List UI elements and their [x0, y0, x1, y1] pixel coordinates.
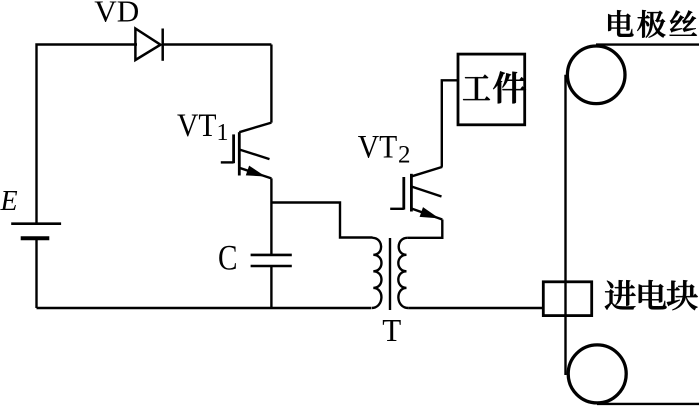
svg-text:1: 1: [217, 120, 229, 146]
electrode wire vertical: [564, 75, 566, 375]
transistor VT2: [390, 167, 442, 220]
diode VD: [135, 29, 162, 61]
wire top-left: [37, 45, 138, 224]
transformer T primary winding: [372, 238, 382, 308]
svg-text:E: E: [0, 186, 18, 217]
svg-text:VT: VT: [177, 108, 217, 144]
battery E: [11, 224, 61, 239]
wire bottom (primary side): [37, 307, 372, 309]
workpiece box: [458, 54, 525, 125]
power feed block: [543, 282, 591, 316]
label workpiece 工件: [463, 71, 526, 103]
svg-text:2: 2: [398, 142, 411, 169]
transistor VT1: [221, 45, 272, 179]
guide pulley bottom: [568, 345, 626, 403]
transformer T secondary winding: [398, 238, 408, 308]
wire top-right: [163, 43, 272, 45]
wire secondary-to-block: [408, 307, 543, 309]
guide pulley top: [567, 46, 625, 104]
transformer T core: [389, 238, 391, 310]
wire cap-to-bottom: [270, 266, 272, 308]
wire workpiece-to-VT2: [442, 80, 458, 167]
wire battery-to-bottom: [35, 238, 37, 308]
label 进电块: [605, 280, 698, 310]
capacitor C: [251, 255, 292, 266]
wire VT1-emitter down: [270, 178, 272, 254]
svg-text:VD: VD: [94, 0, 139, 28]
electrode wire bottom: [597, 403, 699, 405]
svg-text:T: T: [382, 313, 401, 348]
electrode wire top: [596, 43, 699, 45]
label 电极丝: [608, 10, 697, 38]
svg-text:VT: VT: [358, 130, 398, 166]
wire to transformer primary: [271, 203, 372, 238]
wire VT2-emitter to secondary: [407, 220, 442, 238]
svg-text:C: C: [218, 237, 238, 277]
